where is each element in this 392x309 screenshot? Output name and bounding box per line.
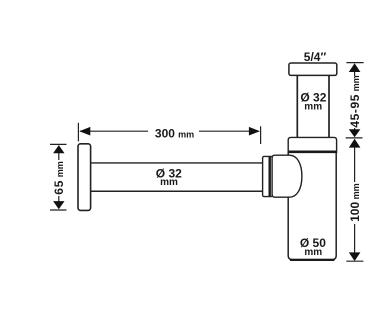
wall flange (left) (78, 144, 91, 211)
dimension 300 mm: left extension line (77, 123, 79, 142)
trap body (cup) (288, 152, 336, 260)
dimension 45-95 mm: line and arrows (349, 63, 361, 137)
label diameter 32 mm (horizontal pipe) (156, 166, 182, 188)
svg-text:300: 300 (155, 127, 175, 141)
pipe nut (263, 156, 273, 196)
dimension 300 mm: line and arrows (79, 127, 260, 136)
label diameter 32 mm (vertical pipe) (300, 91, 326, 113)
svg-text:mm: mm (160, 177, 178, 188)
dimension 100 mm: tick (346, 260, 363, 262)
dimension 300 mm: right extension line (260, 126, 262, 144)
svg-text:45-95 mm: 45-95 mm (348, 75, 362, 127)
dimension 65 mm: ticks (50, 143, 67, 145)
vertical inlet pipe (297, 75, 329, 138)
svg-text:mm: mm (304, 101, 322, 112)
svg-text:5/4″: 5/4″ (304, 50, 327, 64)
svg-text:65 mm: 65 mm (52, 161, 66, 194)
svg-text:mm: mm (304, 247, 322, 258)
svg-text:100 mm: 100 mm (348, 183, 362, 222)
dimension 45-95 mm: ticks (346, 62, 363, 64)
dimension 65 mm: line and arrows (53, 145, 64, 209)
body collar (288, 137, 336, 152)
top flange (289, 63, 337, 75)
label diameter 50 mm (body) (300, 236, 326, 258)
svg-text:mm: mm (178, 130, 194, 140)
elbow (272, 155, 302, 197)
horizontal pipe (91, 163, 263, 191)
dimension 100 mm: line and arrows (349, 139, 361, 261)
